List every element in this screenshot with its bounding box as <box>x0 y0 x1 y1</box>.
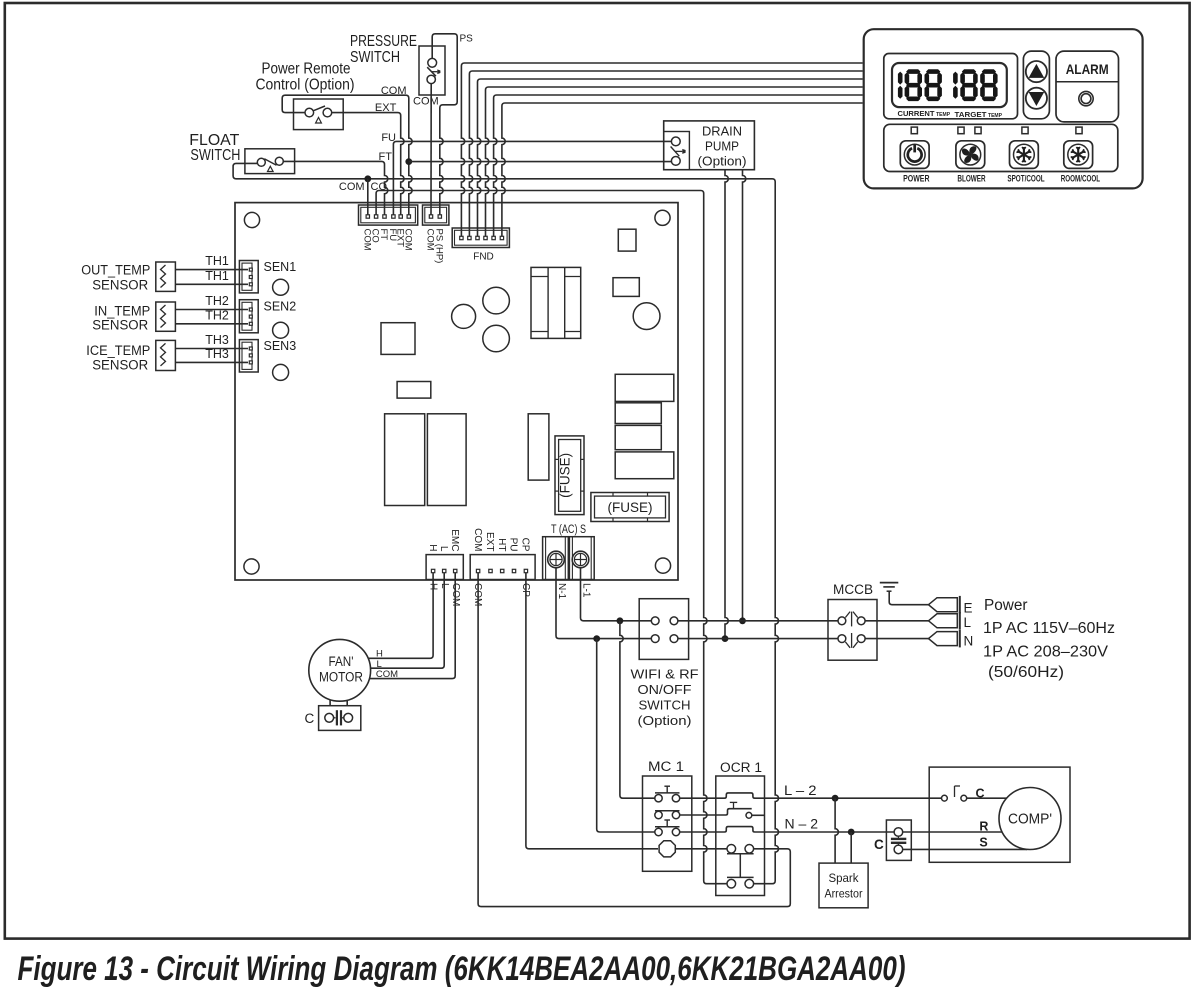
wire FT float switch to CN1 pin3 <box>283 161 388 214</box>
svg-text:SEN2: SEN2 <box>264 299 297 313</box>
wire capacitor to COMP R <box>903 831 1003 833</box>
PCB main board <box>235 203 678 580</box>
connector CN3 (H L EMC) <box>426 555 463 580</box>
svg-text:EMC: EMC <box>449 529 460 551</box>
component rect X4 <box>528 414 549 480</box>
svg-text:Figure 13 - Circuit Wiring Dia: Figure 13 - Circuit Wiring Diagram (6KK1… <box>18 950 906 988</box>
wire TH1 upper <box>175 269 248 271</box>
wire MCCB to L terminal <box>865 620 928 622</box>
wire capacitor to COMP S <box>903 848 1027 850</box>
svg-text:1P AC 115V–60Hz: 1P AC 115V–60Hz <box>983 620 1115 637</box>
drain pump box <box>664 121 755 170</box>
junction N-2/spark <box>848 829 855 836</box>
label COM (float) <box>339 181 365 193</box>
wire FND pin6 to display panel <box>502 103 863 236</box>
label MCCB <box>833 582 873 597</box>
svg-text:PUMP: PUMP <box>705 138 739 153</box>
relay RY2 <box>427 414 466 506</box>
svg-text:L‑1: L‑1 <box>580 583 591 598</box>
svg-text:MOTOR: MOTOR <box>319 670 363 685</box>
wire MC1 coil to OCR1 interlock <box>676 848 727 850</box>
thermistor TH3 sensor box <box>156 340 176 370</box>
wire CP to MC1 coil <box>526 573 658 849</box>
label N - 2 <box>785 816 819 832</box>
wire CO CN1 pin2 to OCR1 interlock <box>376 191 727 884</box>
svg-text:COM: COM <box>472 528 483 551</box>
svg-text:TEMP: TEMP <box>936 112 950 118</box>
label TH2 upper <box>205 294 229 308</box>
pressure switch PS <box>419 46 445 95</box>
wire MCCB to N terminal <box>865 638 928 640</box>
display unit box <box>884 54 1018 119</box>
wire WIFI to MCCB (N) <box>678 638 839 640</box>
wire junction to MC1 row1 <box>620 621 655 798</box>
wire TH2 upper <box>175 309 248 311</box>
label EXT <box>375 102 397 114</box>
transformer T1 <box>531 267 581 338</box>
wire TH2 lower <box>175 323 248 325</box>
labels CN2 pins <box>425 229 445 264</box>
svg-text:FAN': FAN' <box>329 654 354 669</box>
wire TH3 lower <box>175 361 248 363</box>
terminal L <box>929 612 960 630</box>
connector CN2 PS(HP) <box>423 205 449 225</box>
junction L-2/spark <box>832 795 839 802</box>
wire L to fan motor <box>371 573 445 669</box>
svg-text:COM: COM <box>402 229 413 251</box>
svg-text:COM: COM <box>339 181 365 193</box>
label OUT_TEMP SENSOR <box>81 263 150 293</box>
button UP <box>1026 61 1047 82</box>
svg-text:ROOM/COOL: ROOM/COOL <box>1061 174 1101 184</box>
svg-text:L: L <box>377 659 382 670</box>
label TH3 lower <box>205 347 229 361</box>
label C (comp) <box>976 787 985 801</box>
overload relay OCR1 box <box>716 776 765 896</box>
button BLOWER <box>956 141 985 169</box>
svg-text:1P AC 208–230V: 1P AC 208–230V <box>983 644 1109 661</box>
junction pump/L line <box>739 617 746 624</box>
indicator circle near SEN2 <box>273 322 289 338</box>
thermistor TH1 sensor box <box>156 262 176 291</box>
junction L-1/MC1 row1 <box>617 617 624 624</box>
compressor COMP <box>999 788 1061 850</box>
capacitor C4 <box>633 303 660 330</box>
svg-text:Power Remote: Power Remote <box>262 61 351 78</box>
svg-text:Power: Power <box>984 597 1028 614</box>
label TH3 upper <box>205 333 229 347</box>
svg-text:COM: COM <box>376 669 398 680</box>
heatsink stack R1 <box>615 374 674 401</box>
connector SEN1 <box>239 261 258 293</box>
svg-text:TARGET: TARGET <box>955 110 987 119</box>
svg-text:L – 2: L – 2 <box>784 782 817 798</box>
svg-text:SEN1: SEN1 <box>264 260 297 274</box>
connector FND <box>452 228 509 248</box>
component square U1 <box>381 323 415 355</box>
svg-text:Arrestor: Arrestor <box>825 887 863 901</box>
svg-text:SENSOR: SENSOR <box>92 358 148 373</box>
label T (AC) S <box>551 522 586 536</box>
label L (motor) <box>377 659 382 670</box>
mounting hole top-right <box>655 210 670 225</box>
seven-segment display 188188 <box>898 69 998 101</box>
label ICE_TEMP SENSOR <box>86 343 150 373</box>
mounting hole top-left <box>244 212 259 227</box>
float switch FS <box>245 149 295 174</box>
svg-text:TH3: TH3 <box>205 333 229 347</box>
wire motor to capacitor right <box>346 700 348 706</box>
ALARM box <box>1056 51 1119 122</box>
svg-text:N‑1: N‑1 <box>556 583 567 600</box>
svg-text:COMP': COMP' <box>1008 812 1052 828</box>
label TH2 lower <box>205 308 229 322</box>
label FU <box>381 132 396 144</box>
svg-text:H: H <box>427 544 438 551</box>
wire FND pin3 to display panel <box>478 79 863 236</box>
svg-text:CURRENT: CURRENT <box>898 109 935 118</box>
svg-text:L: L <box>438 546 449 552</box>
wire junction to MC1 row3 <box>597 639 655 832</box>
wire FND pin5 to display panel <box>494 95 863 236</box>
capacitor C1 <box>452 304 476 328</box>
svg-text:OUT_TEMP: OUT_TEMP <box>81 263 150 278</box>
svg-text:PU: PU <box>508 538 519 552</box>
wire drain pump leg right <box>743 170 746 621</box>
svg-text:SWITCH: SWITCH <box>639 698 691 713</box>
label C (motor capacitor) <box>305 711 315 726</box>
wire L-2 junction to spark arrestor <box>835 798 838 863</box>
capacitor C2 <box>483 287 510 314</box>
wire TH3 upper <box>175 348 248 350</box>
relay RY1 <box>385 414 425 506</box>
wire ground to E terminal <box>889 591 928 605</box>
connector SEN2 <box>239 300 258 333</box>
junction COM/pump <box>405 158 412 165</box>
fan motor <box>309 639 371 701</box>
up/down button group <box>1023 51 1049 119</box>
component rect X3 <box>613 278 639 297</box>
svg-text:N: N <box>964 634 974 649</box>
svg-text:COM: COM <box>413 96 439 108</box>
drain pump switch contacts <box>671 137 686 165</box>
label DRAIN PUMP (Option) <box>698 123 747 168</box>
wire FND pin1 to display panel <box>461 63 862 236</box>
label SEN2 <box>264 299 297 313</box>
wire FND pin4 to display panel <box>486 87 863 236</box>
wire N-1 to WIFI switch <box>556 568 651 639</box>
svg-text:DRAIN: DRAIN <box>702 123 742 138</box>
heatsink stack R3 <box>615 425 661 449</box>
wire COM junction to drain pump <box>409 161 671 163</box>
label MC 1 <box>648 759 684 774</box>
svg-text:SENSOR: SENSOR <box>92 318 148 333</box>
svg-text:SENSOR: SENSOR <box>92 277 148 292</box>
connector CN4 (COM EXT HT PU CP) <box>470 555 535 580</box>
wire motor to capacitor left <box>329 700 331 706</box>
label SEN1 <box>264 260 297 274</box>
svg-text:OCR 1: OCR 1 <box>720 760 762 775</box>
MCCB contacts <box>838 612 865 648</box>
svg-text:HT: HT <box>496 538 507 551</box>
wire MC1 row1 to OCR1 heater L <box>680 793 942 798</box>
svg-text:SPOT/COOL: SPOT/COOL <box>1007 174 1045 184</box>
label E <box>964 601 973 616</box>
label OCR 1 <box>720 760 762 775</box>
button SPOT/COOL <box>1010 141 1039 169</box>
ALARM LED <box>1079 91 1093 105</box>
terminal block T(AC)S <box>543 537 595 580</box>
LCD display <box>892 63 1007 107</box>
ground symbol <box>880 583 899 592</box>
svg-text:(FUSE): (FUSE) <box>608 500 653 515</box>
LED indicator squares <box>911 127 1082 134</box>
contactor MC1 <box>643 776 692 871</box>
svg-text:ALARM: ALARM <box>1066 61 1109 77</box>
label IN_TEMP SENSOR <box>92 303 150 332</box>
labels below PCB (H L COM COM CP N-1 L-1) <box>428 583 592 606</box>
svg-text:MC 1: MC 1 <box>648 759 684 774</box>
label TARGET TEMP <box>955 110 1003 119</box>
svg-text:C: C <box>874 837 884 852</box>
label C (run capacitor) <box>874 837 884 852</box>
svg-text:TH1: TH1 <box>205 254 229 268</box>
svg-text:(Option): (Option) <box>698 153 747 168</box>
svg-text:TH2: TH2 <box>205 308 229 322</box>
svg-text:ON/OFF: ON/OFF <box>638 682 692 697</box>
component rect X1 <box>397 382 431 399</box>
svg-text:CP: CP <box>520 538 531 552</box>
wire N-2 junction to spark arrestor <box>850 832 852 863</box>
label TH1 upper <box>205 254 229 268</box>
svg-text:SEN3: SEN3 <box>264 339 297 353</box>
component rect X2 <box>618 229 636 251</box>
wire TH1 lower <box>175 283 248 285</box>
label CO <box>371 181 388 193</box>
label PRESSURE SWITCH <box>350 33 417 66</box>
labels CN3 pins top <box>427 529 460 552</box>
label WIFI & RF ON/OFF SWITCH (Option) <box>631 667 699 729</box>
switch S1 Power Remote Control <box>294 99 344 130</box>
label L - 2 <box>784 782 817 798</box>
wire WIFI to MCCB (L) <box>678 620 839 622</box>
svg-text:T (AC) S: T (AC) S <box>551 522 586 536</box>
wire H to fan motor <box>369 573 434 659</box>
wire FU CN1 pin4 to drain pump <box>393 141 671 214</box>
svg-text:SWITCH: SWITCH <box>190 147 240 164</box>
svg-text:WIFI & RF: WIFI & RF <box>631 667 699 682</box>
COMP thermal protector <box>942 786 1008 801</box>
label FND <box>473 252 494 263</box>
label PS <box>460 34 474 45</box>
labels panel buttons <box>903 174 1100 184</box>
fuse F1 (FUSE) <box>555 436 584 515</box>
wire PS COM to CN2 pin1 <box>430 84 432 215</box>
label COM (motor) <box>376 669 398 680</box>
svg-text:FND: FND <box>473 252 494 263</box>
wire COM remote to CN1 pin6 <box>282 95 412 215</box>
wire PS loop to CN2 pin2 <box>432 34 457 215</box>
WIFI switch contacts <box>651 617 678 643</box>
connector SEN3 <box>239 340 258 372</box>
label H (motor) <box>376 649 383 660</box>
terminal N <box>929 630 960 648</box>
junction N-1/MC1 row3 <box>593 635 600 642</box>
MCCB breaker box <box>828 600 877 661</box>
junction COM float/CN1 pin1 <box>364 175 371 182</box>
svg-text:TH2: TH2 <box>205 294 229 308</box>
svg-text:POWER: POWER <box>903 174 930 184</box>
button DOWN <box>1026 88 1047 109</box>
label FLOAT SWITCH <box>189 132 240 164</box>
label S <box>979 836 987 850</box>
heatsink stack R2 <box>615 403 661 424</box>
label COM (remote) <box>381 85 407 97</box>
terminal E <box>929 596 960 614</box>
heatsink stack R4 <box>615 452 674 479</box>
svg-text:PS: PS <box>460 34 474 45</box>
svg-text:(50/60Hz): (50/60Hz) <box>988 664 1064 681</box>
label SEN3 <box>264 339 297 353</box>
svg-text:L: L <box>964 615 972 630</box>
svg-text:(Option): (Option) <box>638 713 692 728</box>
MC1 coil <box>659 841 675 857</box>
indicator circle near SEN1 <box>273 279 289 295</box>
labels CN4 pins top <box>472 528 531 552</box>
svg-text:S: S <box>979 836 987 850</box>
wire MC1 row2 to OCR1 aux <box>680 809 752 815</box>
button bar <box>884 124 1118 171</box>
OCR1 interlock contacts <box>727 845 754 889</box>
button POWER <box>900 141 929 169</box>
svg-text:(FUSE): (FUSE) <box>558 453 573 498</box>
svg-text:IN_TEMP: IN_TEMP <box>94 303 150 318</box>
svg-text:E: E <box>964 601 973 616</box>
control panel box <box>864 29 1143 188</box>
svg-text:SWITCH: SWITCH <box>350 49 400 66</box>
wire EXT remote to CN1 pin5 <box>332 113 404 215</box>
wire drain pump leg left <box>725 170 728 639</box>
label Power Remote Control (Option) <box>256 61 355 94</box>
compressor box <box>929 767 1070 862</box>
wire COM to fan motor <box>369 573 455 679</box>
mounting hole bottom-left <box>244 559 259 574</box>
svg-text:MCCB: MCCB <box>833 582 873 597</box>
mounting hole bottom-right <box>655 558 670 573</box>
svg-text:C: C <box>976 787 985 801</box>
connector CN1 (COM CO FT FU EXT COM) <box>359 205 418 225</box>
labels CN1 pins <box>361 229 413 251</box>
label TH1 lower <box>205 269 229 283</box>
wire L-1 to WIFI switch <box>581 568 652 621</box>
svg-text:TH1: TH1 <box>205 269 229 283</box>
svg-text:BLOWER: BLOWER <box>957 174 986 184</box>
indicator circle near SEN3 <box>273 364 289 380</box>
spark arrestor box <box>819 863 868 908</box>
svg-text:ICE_TEMP: ICE_TEMP <box>86 343 150 358</box>
svg-text:R: R <box>979 820 988 834</box>
thermistor TH2 sensor box <box>156 302 176 331</box>
OCR1 aux contact <box>730 802 765 818</box>
svg-text:PRESSURE: PRESSURE <box>350 33 417 50</box>
wire FND pin2 to display panel <box>469 71 862 236</box>
junction pump/N line <box>722 635 729 642</box>
label R <box>979 820 988 834</box>
svg-text:PS (HP): PS (HP) <box>433 229 444 264</box>
run capacitor C <box>886 820 911 860</box>
label L <box>964 615 972 630</box>
fuse F2 (FUSE) <box>591 493 669 522</box>
button ROOM/COOL <box>1064 141 1093 169</box>
wire CN1 pin1 COM <box>367 179 369 215</box>
label N <box>964 634 974 649</box>
capacitor C3 <box>483 325 510 352</box>
svg-text:Control (Option): Control (Option) <box>256 77 355 94</box>
svg-text:TEMP: TEMP <box>988 113 1002 119</box>
svg-text:TH3: TH3 <box>205 347 229 361</box>
svg-text:EXT: EXT <box>484 532 495 551</box>
WIFI & RF switch box <box>639 599 688 660</box>
label COM (pressure) <box>413 96 439 108</box>
caption Figure 13 <box>18 950 906 988</box>
label Power <box>983 597 1115 681</box>
svg-text:N – 2: N – 2 <box>785 816 819 832</box>
svg-text:C: C <box>305 711 315 726</box>
label CURRENT TEMP <box>898 109 951 118</box>
wire COM float switch to OCR1 interlock <box>233 163 778 883</box>
wire MC1 row3 to OCR1 heater N <box>680 827 895 832</box>
motor capacitor C <box>319 706 361 731</box>
label FT <box>379 151 393 163</box>
svg-text:Spark: Spark <box>829 871 860 885</box>
wire COM CN4 to OCR1 coil-return <box>478 573 790 907</box>
